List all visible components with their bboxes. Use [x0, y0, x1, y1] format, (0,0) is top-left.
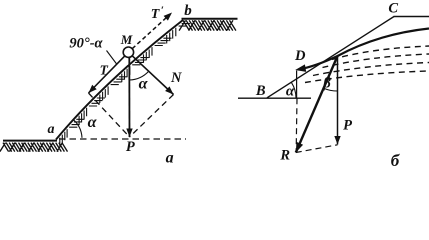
ground line bottom-left — [3, 140, 57, 142]
force R thick arrow — [296, 56, 338, 153]
svg-text:T: T — [100, 62, 109, 77]
straight chord line B to C — [267, 17, 394, 98]
svg-text:T: T — [151, 7, 161, 22]
svg-text:b: b — [184, 3, 192, 19]
svg-text:D: D — [294, 48, 306, 64]
dashed horizontal construction line from a — [59, 138, 186, 140]
horizontal ground line at C — [394, 16, 429, 18]
angle alpha arc at M between P and N — [129, 71, 148, 80]
force T' dashed arrow up-slope — [132, 17, 167, 49]
svg-text:α: α — [139, 76, 149, 93]
dashed side R-tip to P-tip — [296, 145, 338, 153]
svg-text:P: P — [343, 117, 352, 133]
ground line top (crest) — [182, 18, 238, 20]
thin vertical line below D — [296, 71, 298, 99]
dashed slip curve 2 — [323, 54, 429, 68]
slope face line a-b — [56, 20, 183, 140]
force N arrow normal to slope — [132, 56, 173, 95]
dashed slip curve 3 — [313, 63, 429, 76]
svg-text:a: a — [48, 122, 55, 137]
hatch along slope face — [60, 24, 190, 147]
angle alpha arc at a — [73, 119, 82, 138]
hatch under top ground — [179, 20, 236, 30]
svg-text:P: P — [126, 139, 135, 155]
point M circle — [123, 47, 133, 57]
svg-text:α: α — [286, 84, 295, 100]
svg-text:β: β — [322, 76, 331, 92]
angle beta arc fig b — [324, 88, 338, 91]
force P vertical arrow (weight) — [128, 57, 130, 137]
force P vertical arrow fig b — [337, 56, 339, 145]
svg-text:M: M — [120, 32, 133, 47]
dashed slip curve 1 — [332, 46, 429, 60]
svg-text:R: R — [279, 148, 290, 164]
dashed parallelogram side N-tip to P-tip — [130, 95, 174, 138]
leader line from 90deg-alpha label to angle at M — [107, 51, 118, 65]
svg-text:90°-α: 90°-α — [69, 36, 103, 52]
svg-text:′: ′ — [161, 5, 164, 17]
svg-text:B: B — [255, 83, 266, 99]
dashed vertical line down to R tip — [295, 98, 298, 150]
angle alpha arc fig b — [291, 82, 296, 98]
thick slip-surface curve with arrowhead toward D — [299, 29, 429, 70]
force T arrow down-slope — [89, 56, 125, 93]
horizontal line at B — [238, 97, 311, 99]
dashed parallelogram side T-tip to P-tip — [89, 93, 130, 137]
dashed slip curve 4 — [305, 71, 429, 83]
svg-text:N: N — [170, 70, 182, 86]
svg-text:α: α — [88, 114, 98, 131]
hatch under bottom ground — [0, 143, 67, 152]
svg-text:C: C — [388, 0, 398, 16]
svg-text:а: а — [166, 150, 174, 167]
